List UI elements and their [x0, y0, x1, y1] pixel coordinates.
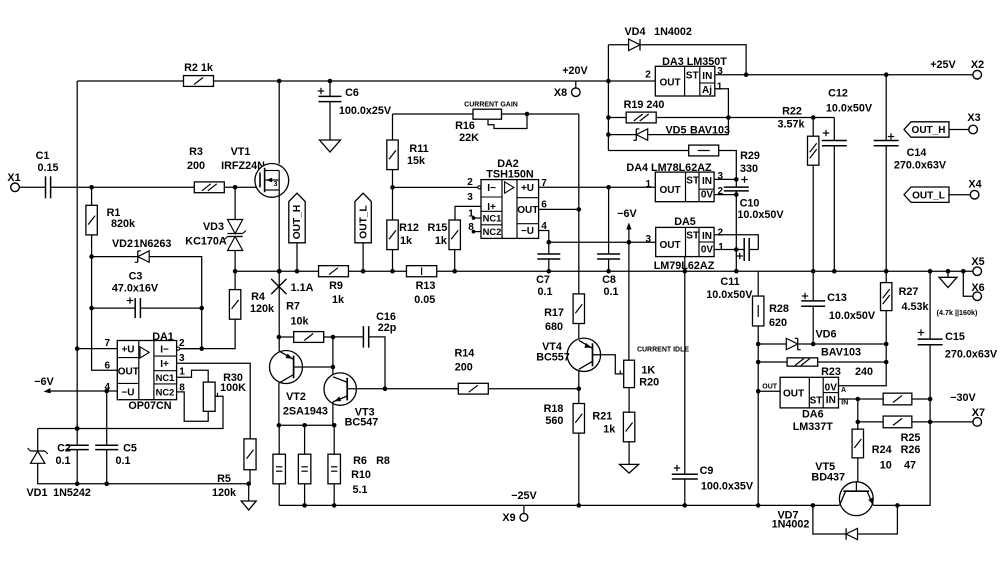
svg-text:C10: C10 — [740, 198, 760, 210]
svg-text:R7: R7 — [286, 301, 300, 313]
svg-text:BC557: BC557 — [536, 352, 570, 364]
svg-text:LM337T: LM337T — [793, 421, 834, 433]
svg-text:OUT_H: OUT_H — [912, 125, 946, 136]
svg-text:10k: 10k — [290, 316, 309, 328]
svg-text:NC2: NC2 — [156, 387, 175, 398]
svg-text:I+: I+ — [160, 359, 169, 370]
svg-text:OUT_L: OUT_L — [912, 190, 945, 201]
svg-text:C8: C8 — [602, 274, 616, 286]
svg-text:2SA1943: 2SA1943 — [283, 405, 328, 417]
svg-text:DA5: DA5 — [674, 216, 696, 228]
svg-text:C7: C7 — [536, 274, 550, 286]
svg-text:OUT: OUT — [659, 78, 680, 89]
svg-text:VD2: VD2 — [112, 238, 133, 250]
svg-text:620: 620 — [769, 317, 787, 329]
svg-text:1: 1 — [179, 367, 185, 378]
svg-text:1k: 1k — [400, 235, 413, 247]
svg-text:BD437: BD437 — [811, 471, 845, 483]
svg-text:0.1: 0.1 — [55, 455, 70, 467]
svg-text:0.05: 0.05 — [414, 294, 435, 306]
svg-text:X8: X8 — [554, 87, 567, 99]
svg-text:4.53k: 4.53k — [901, 301, 929, 313]
svg-text:C9: C9 — [700, 465, 714, 477]
svg-text:NC2: NC2 — [483, 226, 502, 237]
svg-text:DA4 LM78L62AZ: DA4 LM78L62AZ — [626, 162, 712, 174]
svg-text:R4: R4 — [251, 291, 265, 303]
svg-text:10: 10 — [880, 460, 892, 472]
svg-text:6: 6 — [105, 361, 111, 372]
svg-text:0V: 0V — [825, 382, 838, 393]
svg-text:Aj: Aj — [702, 85, 712, 96]
svg-text:C15: C15 — [945, 331, 965, 343]
svg-text:1.1A: 1.1A — [291, 282, 314, 294]
svg-text:680: 680 — [545, 321, 563, 333]
svg-text:1k: 1k — [435, 235, 448, 247]
svg-text:1k: 1k — [332, 294, 345, 306]
svg-text:C14: C14 — [907, 147, 927, 159]
svg-text:270.0x63V: 270.0x63V — [945, 349, 998, 361]
svg-text:OUT_H: OUT_H — [292, 205, 303, 240]
svg-text:X3: X3 — [967, 112, 980, 124]
svg-text:R8: R8 — [376, 455, 390, 467]
svg-text:VT2: VT2 — [286, 391, 306, 403]
svg-text:R11: R11 — [409, 143, 428, 155]
svg-text:3: 3 — [467, 192, 473, 203]
svg-text:R23: R23 — [821, 366, 841, 378]
svg-text:−6V: −6V — [34, 376, 54, 388]
svg-text:R15: R15 — [427, 222, 447, 234]
svg-text:R17: R17 — [544, 307, 564, 319]
svg-text:7: 7 — [105, 338, 111, 349]
svg-text:5.1: 5.1 — [352, 484, 367, 496]
svg-text:1: 1 — [646, 179, 652, 190]
svg-text:VT1: VT1 — [231, 146, 251, 158]
svg-text:C12: C12 — [828, 88, 848, 100]
svg-text:ST: ST — [686, 71, 699, 82]
svg-text:1k: 1k — [603, 424, 616, 436]
svg-text:820k: 820k — [111, 218, 136, 230]
svg-text:R2 1k: R2 1k — [184, 62, 214, 74]
svg-text:R24: R24 — [872, 444, 892, 456]
svg-text:BC547: BC547 — [345, 417, 379, 429]
svg-text:VD1: VD1 — [26, 487, 47, 499]
svg-text:R26: R26 — [901, 444, 921, 456]
svg-text:10.0x50V: 10.0x50V — [826, 103, 873, 115]
svg-text:OUT: OUT — [659, 240, 680, 251]
svg-text:0V: 0V — [701, 245, 714, 256]
svg-text:R25: R25 — [901, 432, 921, 444]
svg-text:270.0x63V: 270.0x63V — [894, 160, 947, 172]
svg-text:IN: IN — [702, 231, 712, 242]
svg-text:R19 240: R19 240 — [624, 99, 665, 111]
svg-text:OUT: OUT — [762, 384, 778, 391]
svg-text:0.1: 0.1 — [537, 286, 552, 298]
svg-text:OUT: OUT — [659, 185, 680, 196]
svg-text:C2: C2 — [57, 443, 71, 455]
svg-text:100.0x35V: 100.0x35V — [701, 481, 754, 493]
svg-text:R28: R28 — [769, 303, 789, 315]
svg-text:47.0x16V: 47.0x16V — [112, 283, 159, 295]
svg-text:I+: I+ — [487, 202, 496, 213]
svg-text:10.0x50V: 10.0x50V — [829, 310, 876, 322]
svg-text:(4.7k ||160k): (4.7k ||160k) — [937, 308, 978, 317]
svg-text:120k: 120k — [212, 487, 237, 499]
svg-text:IN: IN — [826, 395, 836, 406]
svg-text:22p: 22p — [378, 322, 397, 334]
svg-text:1N4002: 1N4002 — [654, 26, 692, 38]
svg-text:R12: R12 — [399, 222, 419, 234]
svg-text:1N4002: 1N4002 — [772, 518, 810, 530]
svg-text:120k: 120k — [250, 303, 275, 315]
svg-text:A: A — [841, 387, 846, 394]
svg-text:3: 3 — [646, 234, 652, 245]
svg-text:10.0x50V: 10.0x50V — [706, 289, 753, 301]
svg-text:VD3: VD3 — [203, 221, 224, 233]
svg-text:−U: −U — [521, 226, 534, 237]
svg-text:IN: IN — [702, 176, 712, 187]
svg-text:TSH150N: TSH150N — [486, 169, 534, 181]
svg-text:1: 1 — [718, 242, 724, 253]
svg-text:2: 2 — [645, 70, 651, 81]
svg-text:OUT: OUT — [517, 205, 538, 216]
svg-text:0.15: 0.15 — [37, 162, 58, 174]
svg-text:R21: R21 — [592, 411, 612, 423]
svg-text:2: 2 — [718, 228, 724, 239]
svg-text:−U: −U — [121, 388, 134, 399]
svg-text:R16: R16 — [455, 120, 475, 132]
svg-text:+20V: +20V — [562, 65, 588, 77]
svg-text:R20: R20 — [639, 377, 659, 389]
svg-text:C5: C5 — [123, 443, 137, 455]
svg-text:X1: X1 — [7, 172, 20, 184]
svg-text:3: 3 — [179, 353, 185, 364]
svg-text:47: 47 — [904, 460, 916, 472]
svg-text:ST: ST — [686, 231, 699, 242]
svg-text:1N5242: 1N5242 — [53, 487, 91, 499]
svg-text:R5: R5 — [217, 473, 231, 485]
svg-text:R22: R22 — [782, 106, 802, 118]
svg-text:1N6263: 1N6263 — [134, 238, 172, 250]
svg-text:3.57k: 3.57k — [777, 119, 805, 131]
svg-text:−25V: −25V — [511, 490, 537, 502]
svg-text:DA1: DA1 — [152, 331, 174, 343]
svg-text:560: 560 — [545, 415, 563, 427]
svg-text:VD6: VD6 — [815, 329, 836, 341]
svg-text:CURRENT GAIN: CURRENT GAIN — [464, 102, 518, 109]
svg-text:240: 240 — [855, 366, 873, 378]
svg-text:100K: 100K — [220, 382, 246, 394]
svg-text:1: 1 — [717, 82, 723, 93]
svg-text:I−: I− — [160, 345, 169, 356]
svg-text:CURRENT IDLE: CURRENT IDLE — [637, 347, 689, 354]
svg-text:0.1: 0.1 — [603, 286, 618, 298]
svg-text:1K: 1K — [641, 364, 655, 376]
svg-text:+25V: +25V — [930, 59, 956, 71]
svg-text:−6V: −6V — [617, 208, 637, 220]
svg-text:100.0x25V: 100.0x25V — [339, 105, 392, 117]
svg-text:3: 3 — [717, 66, 723, 77]
svg-text:R6: R6 — [353, 455, 367, 467]
svg-text:200: 200 — [187, 160, 205, 172]
svg-text:BAV103: BAV103 — [821, 347, 861, 359]
svg-text:X2: X2 — [971, 59, 984, 71]
svg-text:−30V: −30V — [950, 392, 976, 404]
svg-text:15k: 15k — [407, 155, 426, 167]
svg-text:R29: R29 — [740, 150, 760, 162]
svg-text:2: 2 — [467, 177, 473, 188]
svg-text:R3: R3 — [189, 146, 203, 158]
svg-text:X6: X6 — [971, 282, 984, 294]
svg-text:X4: X4 — [968, 179, 981, 191]
svg-text:NC1: NC1 — [156, 372, 175, 383]
svg-text:X5: X5 — [971, 256, 984, 268]
svg-text:OUT: OUT — [118, 367, 139, 378]
svg-text:DA6: DA6 — [802, 409, 824, 421]
svg-text:R27: R27 — [899, 286, 919, 298]
svg-text:10.0x50V: 10.0x50V — [737, 209, 784, 221]
svg-text:R14: R14 — [454, 348, 474, 360]
svg-text:VD4: VD4 — [624, 26, 645, 38]
svg-text:330: 330 — [740, 163, 758, 175]
svg-text:ST: ST — [810, 396, 823, 407]
svg-text:NC1: NC1 — [483, 213, 502, 224]
svg-text:3: 3 — [274, 181, 278, 188]
svg-text:0V: 0V — [701, 190, 714, 201]
svg-text:C13: C13 — [827, 292, 847, 304]
svg-text:0.1: 0.1 — [115, 455, 130, 467]
svg-text:R9: R9 — [329, 280, 343, 292]
svg-text:C6: C6 — [345, 87, 359, 99]
svg-text:+U: +U — [121, 345, 134, 356]
svg-text:C1: C1 — [36, 150, 50, 162]
svg-text:I−: I− — [487, 183, 496, 194]
svg-text:X9: X9 — [502, 512, 515, 524]
svg-text:KC170A: KC170A — [185, 236, 227, 248]
svg-text:C11: C11 — [720, 276, 739, 288]
svg-text:OP07CN: OP07CN — [128, 400, 171, 412]
svg-text:R10: R10 — [351, 469, 371, 481]
svg-text:R13: R13 — [416, 280, 436, 292]
svg-text:IN: IN — [702, 71, 712, 82]
svg-text:3: 3 — [718, 171, 724, 182]
svg-text:OUT_L: OUT_L — [358, 205, 369, 238]
svg-text:ST: ST — [686, 175, 699, 186]
svg-text:200: 200 — [455, 361, 473, 373]
svg-text:22K: 22K — [459, 132, 479, 144]
svg-text:C3: C3 — [129, 271, 143, 283]
svg-text:R18: R18 — [544, 403, 564, 415]
svg-text:+U: +U — [521, 183, 534, 194]
svg-text:IN: IN — [841, 400, 848, 407]
svg-text:X7: X7 — [972, 407, 985, 419]
svg-text:OUT: OUT — [783, 389, 804, 400]
